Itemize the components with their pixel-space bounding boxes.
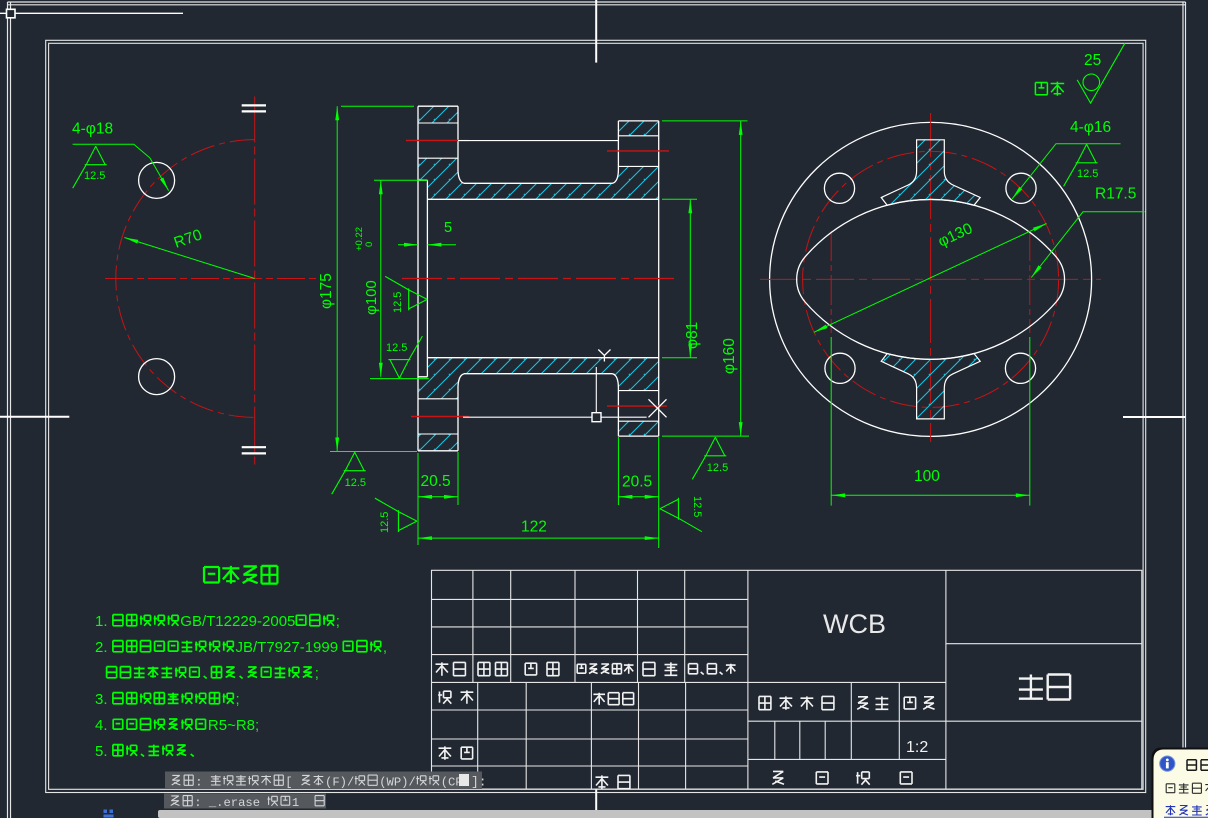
svg-text:12.5: 12.5 [1077,168,1098,180]
dimension 20.5 left [418,452,458,545]
section view: hole centerline bottom-left [411,416,469,418]
title block text 重量 [857,696,888,709]
svg-text:0: 0 [364,242,375,247]
right view: bolt hole top-right [1006,173,1036,203]
title block text 分区 [525,662,559,675]
popup text 完成 [1187,760,1208,771]
surface symbol 12.5 at flange2 bottom [692,437,728,479]
surface symbol 12.5 at flange1 bottom [332,452,366,494]
command line echo 1 [165,772,482,790]
svg-text:12.5: 12.5 [84,170,105,182]
right view: lobe centerline left [830,231,832,333]
svg-text:100: 100 [914,468,940,485]
title block text 工艺 [442,774,476,787]
dimension φ130 [814,220,1047,332]
svg-text:12.5: 12.5 [707,462,728,474]
svg-text:4.: 4. [95,717,108,734]
dimension 20.5 right [618,437,658,548]
title block text 阶段标记 [759,696,834,709]
center mark left [0,416,69,418]
svg-text:4-φ16: 4-φ16 [1070,119,1111,136]
svg-text:GB/T12229-2005: GB/T12229-2005 [180,613,295,630]
svg-text:12.5: 12.5 [392,292,404,313]
svg-text:: _.erase: : _.erase [194,796,260,810]
right view: bolt hole bottom-right [1005,353,1035,383]
technical requirement line 3 [107,665,319,682]
selection grip top-left [7,9,16,17]
svg-text:5.: 5. [95,743,108,760]
section view: hole centerline bottom-right [607,405,667,407]
popup info icon [1160,756,1175,771]
svg-text:122: 122 [521,519,547,536]
title block grid [432,570,1142,789]
svg-text:25: 25 [1084,52,1101,69]
title block text 更改文件号 [577,664,633,674]
dimension φ175 [318,106,417,451]
surface symbol 12.5 at right face [660,496,703,532]
svg-text:WCB: WCB [823,609,886,639]
technical requirements title 技术要求 [204,566,277,584]
svg-text:]:: ]: [471,775,487,790]
right view: bolt hole top-left [824,173,854,203]
edit artifact: vertical line [595,367,597,413]
svg-text:1: 1 [292,796,299,810]
dimension 100 [831,337,1030,506]
right view: horizontal centerline [760,278,1101,280]
svg-text:φ81: φ81 [684,322,701,349]
svg-text:φ160: φ160 [721,338,738,374]
title block text 年月日 [689,664,736,675]
svg-text:(F)/: (F)/ [325,776,354,790]
edit artifact: highlighted line bottom [463,416,647,418]
svg-text:R17.5: R17.5 [1095,186,1136,203]
left view: bolt circle arc R70 [116,140,255,418]
leader R17.5 [1031,186,1144,278]
svg-text:φ100: φ100 [363,280,380,315]
technical requirement line 5 [95,717,259,734]
title block text 共 [772,771,784,784]
status icon [104,810,114,818]
title block text 标准化 [593,693,633,705]
title block text 签名 [643,662,677,675]
note 其余 (rest roughness) [1035,43,1125,103]
technical requirement line 6 [95,743,194,760]
command line echo 2 [164,794,326,809]
title block text 张1 [816,772,828,784]
left view: horizontal centerline [105,278,322,280]
dimension φ160 [662,121,749,436]
title block text 标记 [436,662,466,675]
technical requirement line 4 [95,691,240,708]
surface symbol 12.5 at bore step [385,276,427,313]
right view: flange outer circle [770,122,1092,436]
right view: bolt hole bottom-left [825,353,855,383]
section view: hole centerline top-left [406,140,469,142]
title block text 张2 [900,772,912,784]
dimension 5 [398,220,456,247]
center mark right [1123,416,1185,418]
center mark bottom [595,789,597,818]
title block part name 支架 [1019,675,1070,700]
svg-text:12.5: 12.5 [379,512,391,533]
popup link 单击以查 [1164,805,1208,817]
dimension 122 [418,519,659,541]
edit artifact: grip square [592,413,601,422]
right view: bottom rib (hatched) [881,354,980,419]
section view: bolt hole edge lines [418,123,659,434]
svg-text:3.: 3. [95,691,108,708]
title block text 审核 [439,746,473,759]
dimension φ100 +0.22/0 [354,180,429,378]
title block text 处数 [478,662,507,675]
title block text 第 [856,772,870,785]
section view: hatched cut area top [418,106,659,199]
center mark top [595,0,597,63]
selected stray line top-left [0,12,183,14]
right view: lobe centerline right [1029,231,1031,333]
svg-text:;: ; [315,665,319,682]
surface symbol 12.5 at φ100 lower face [386,336,422,378]
technical requirement line 1 [95,613,340,630]
surface finish symbol 12.5 (left view) [73,146,107,188]
edit artifact: Y marker [598,350,610,362]
section view: main horizontal centerline [402,278,674,280]
svg-text:φ175: φ175 [318,273,335,309]
technical requirement line 2 [95,639,387,656]
edit artifact: highlighted line top [458,140,618,142]
svg-text:5: 5 [444,220,452,236]
svg-text:;: ; [336,613,340,630]
svg-text:12.5: 12.5 [345,477,366,489]
left view: vertical centerline [254,97,256,466]
svg-text:4-φ18: 4-φ18 [72,121,113,138]
svg-text:20.5: 20.5 [622,474,652,491]
svg-text:1:2: 1:2 [906,739,928,756]
svg-text:[: [ [285,776,292,790]
popup text 未发现错 [1166,783,1208,793]
svg-text:JB/T7927-1999: JB/T7927-1999 [236,639,339,656]
notification popup [1152,748,1208,818]
section view: part outline [418,106,659,451]
section view: hole centerline top-right [607,150,669,152]
title block text 设计 [438,690,473,703]
left view: hole circle bottom [139,359,175,395]
right view: central boss lens outline [797,199,1065,359]
right view: vertical centerline [930,113,932,442]
svg-text:(WP)/: (WP)/ [379,776,416,790]
left view: hole circle top [139,162,175,198]
svg-text:12.5: 12.5 [691,496,703,517]
svg-text:2.: 2. [95,639,108,656]
edit artifact: X marker [649,399,667,417]
right view: top rib (hatched) [881,140,980,206]
left view: section break marks bottom [242,447,266,453]
svg-text::: : [195,776,202,790]
svg-text:,: , [383,639,387,656]
svg-text:1.: 1. [95,613,108,630]
svg-text:12.5: 12.5 [386,342,407,354]
right view: bolt circle φ130 [803,151,1059,407]
svg-text:;: ; [236,691,240,708]
leader 4-φ18 [72,121,169,191]
dimension φ81 [662,199,701,357]
dimension R70 [124,226,254,278]
section view: bolt hole voids (unhatched) [418,123,659,434]
title block text 比例 [904,697,934,710]
section view: hatched cut area bottom [418,358,659,451]
leader 4-φ16 with roughness [1012,119,1120,199]
surface symbol 12.5 at left face [375,498,417,533]
svg-text:R5~R8;: R5~R8; [208,717,259,734]
command input bar [158,810,1208,818]
left view: section break marks top [242,105,266,111]
svg-text:20.5: 20.5 [421,473,451,490]
title block text 批准 [596,775,630,788]
